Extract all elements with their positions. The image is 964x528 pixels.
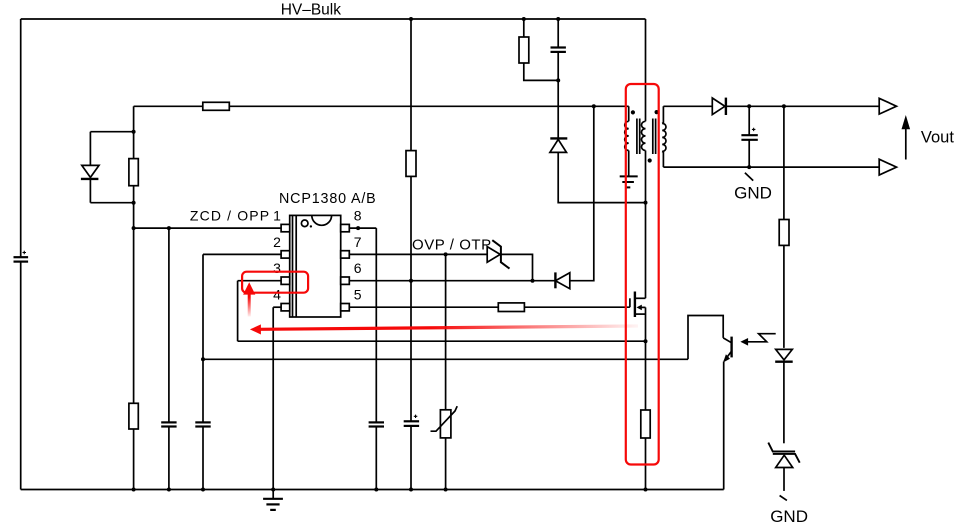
capacitor C-pin8 [369, 422, 384, 426]
op-amp U1 NCP1380 body [290, 215, 341, 317]
wire diode branch lower vertical [89, 179, 91, 203]
junction HV/snubber resistor [522, 17, 526, 21]
ground aux winding [620, 176, 638, 187]
wire pin8 row [349, 227, 376, 229]
svg-text:NCP1380 A/B: NCP1380 A/B [279, 191, 377, 207]
capacitor C-zcd [161, 422, 176, 426]
junction vcc/pin6 [409, 279, 413, 283]
wire resistor to bus [133, 429, 135, 490]
junction aux/vcc-diode [592, 104, 596, 108]
wire divider to led [783, 245, 785, 348]
wire startup node vertical [133, 106, 135, 158]
pin 2 box [281, 251, 290, 258]
junction out cap bottom [747, 165, 751, 169]
capacitor C-bulk [14, 251, 29, 262]
junction HV/startup resistor [409, 17, 413, 21]
junction source/CS [644, 339, 648, 343]
wire GND pin4 row [273, 306, 281, 308]
wire snubber resistor drop [523, 19, 525, 37]
junction bus C-vcc [409, 488, 413, 492]
ground flag GND right [780, 496, 787, 501]
zener D-ovp [487, 240, 509, 268]
transistor U-opto phototransistor [723, 337, 732, 363]
pin 4 box [281, 304, 290, 311]
diode D-opto-led [775, 349, 793, 361]
wire pin8 vertical [375, 228, 377, 422]
svg-text:7: 7 [354, 234, 362, 250]
svg-text:GND: GND [734, 183, 772, 202]
svg-text:HV–Bulk: HV–Bulk [281, 2, 342, 19]
junction bus NTC [444, 488, 448, 492]
diode D-zcd [81, 165, 99, 179]
junction bus pin4 gnd [271, 488, 275, 492]
diode D-out [712, 98, 726, 115]
junction out cap [747, 104, 751, 108]
junction HV/snubber cap [556, 17, 560, 21]
wire snubber cap to diode [557, 52, 559, 138]
wire pin6 row [349, 280, 555, 282]
wire pin8 cap to bus [375, 427, 377, 490]
wire led to tl431 [783, 362, 785, 443]
wire aux rail right segment [229, 105, 628, 107]
wire ZCD pin1 row [134, 227, 282, 229]
transformer T1 secondary winding [662, 106, 666, 167]
svg-text:1: 1 [273, 208, 281, 224]
junction zcd cap tap [167, 226, 171, 230]
wire CS pin3 row [238, 280, 282, 282]
wire secondary bottom rail [663, 166, 879, 168]
pin 3 box [281, 277, 290, 284]
junction bus C-fb [201, 488, 205, 492]
svg-text:GND: GND [770, 507, 808, 526]
svg-text:8: 8 [354, 208, 362, 224]
svg-text:Vout: Vout [921, 129, 954, 147]
wire FB horizontal to opto [203, 358, 688, 360]
junction drain/clamp [644, 201, 648, 205]
resistor R-bottom-left [129, 403, 138, 429]
wire left rail upper [20, 19, 22, 257]
junction pin8 stub [356, 226, 360, 230]
wire clamp diode to drain [558, 152, 645, 202]
junction pin7 thermistor tap [444, 252, 448, 256]
junction FB bus tap [201, 357, 205, 361]
ground symbol bottom [263, 490, 283, 510]
wire aux rail left segment [134, 105, 203, 107]
junction divider top [782, 104, 786, 108]
phase dot secondary [655, 110, 659, 114]
wire snubber cap drop [557, 19, 559, 47]
node red highlight box pin3 [242, 272, 308, 293]
transformer T1 primary winding [642, 19, 646, 151]
junction snubber RC [556, 78, 560, 82]
wire opto light arrow [740, 334, 775, 346]
wire zcd cap to bus [168, 427, 170, 490]
pin 5 box [341, 304, 350, 311]
node red arrow horizontal [250, 324, 638, 334]
phase dot aux [631, 110, 635, 114]
node red highlight box transformer [626, 84, 659, 465]
junction startup node top [132, 130, 136, 134]
wire bottom ground bus [21, 489, 724, 491]
pin 6 box [341, 277, 350, 284]
phase dot primary [648, 158, 652, 162]
resistor R-startup [406, 151, 416, 177]
ground flag GND output [745, 173, 753, 181]
transformer T1 core left [637, 119, 640, 155]
wire diode to aux riser [570, 106, 594, 280]
wire output rail after diode [726, 105, 879, 107]
transformer T1 core right [653, 119, 656, 155]
wire source vertical [645, 307, 647, 410]
pin 1 box [281, 224, 290, 231]
wire CS horizontal to mosfet source [238, 340, 646, 342]
transformer T1 aux winding [625, 106, 629, 176]
wire startup HV vertical [410, 19, 412, 151]
wire diode branch bottom [90, 202, 133, 204]
pin 8 box [341, 224, 350, 231]
capacitor C-out polarized [741, 106, 757, 167]
junction bus R [132, 488, 136, 492]
junction bus C-zcd [167, 488, 171, 492]
wire sense resistor to bus [645, 438, 647, 490]
resistor R-gate [498, 303, 524, 312]
junction zener/pin6 row [531, 279, 535, 283]
wire vcc cap to bus [410, 426, 412, 489]
svg-text:4: 4 [273, 287, 281, 303]
node output terminal bottom [879, 159, 896, 175]
wire pin5 DRV row [349, 306, 498, 308]
wire CS vertical [237, 281, 239, 342]
svg-text:3: 3 [273, 260, 281, 276]
wire HV-Bulk top bus [21, 18, 646, 20]
wire gate resistor to mosfet [524, 306, 630, 308]
wire zcd cap vertical [168, 228, 170, 422]
resistor R-zcd-bottom [129, 159, 138, 186]
junction zcd row left [132, 226, 136, 230]
thermistor NTC [431, 406, 458, 438]
capacitor C-fb [195, 422, 210, 426]
node red arrow vertical [243, 282, 255, 316]
diode D-clamp [550, 138, 567, 152]
wire FB pin2 row [203, 253, 281, 255]
svg-text:ZCD / OPP: ZCD / OPP [190, 208, 270, 224]
wire secondary top rail [663, 105, 712, 107]
wire startup resistor to vcc cap [410, 176, 412, 421]
resistor R-snubber [519, 37, 529, 63]
capacitor C-vcc polarized [404, 415, 419, 426]
wire tl431 to gnd [783, 468, 785, 491]
junction bus R-sense [644, 488, 648, 492]
wire drain vertical [645, 151, 647, 299]
svg-text:OVP / OTP: OVP / OTP [412, 236, 492, 253]
junction bus C-pin8 [374, 488, 378, 492]
junction startup node bottom [132, 201, 136, 205]
wire diode branch top [90, 131, 133, 133]
transistor U-tl431 shunt regulator [768, 443, 799, 468]
wire diode branch upper vertical [89, 132, 91, 166]
resistor R-divider [779, 220, 789, 246]
wire thermistor vertical [445, 254, 447, 409]
svg-text:6: 6 [354, 260, 362, 276]
wire FB vertical [202, 254, 204, 422]
resistor R-zcd-top [203, 102, 230, 110]
pin 7 box [341, 251, 350, 258]
wire pin7 row [349, 253, 487, 255]
capacitor C-snubber [551, 48, 566, 52]
wire opto emitter to bus [723, 362, 725, 490]
wire divider upper [783, 106, 785, 219]
svg-text:5: 5 [354, 287, 362, 303]
node output terminal top [879, 98, 896, 114]
wire snubber resistor to joint [524, 63, 558, 80]
svg-text:2: 2 [273, 234, 281, 250]
node Vout arrow [902, 115, 911, 160]
wire fb cap to bus [202, 427, 204, 490]
wire left rail lower [20, 262, 22, 490]
wire thermistor to bus [445, 438, 447, 490]
transistor Q1 mosfet [630, 292, 646, 318]
wire opto collector feed [688, 316, 723, 360]
wire zener to corner [501, 254, 533, 280]
wire startup to zcd row [133, 186, 135, 404]
resistor R-sense [641, 410, 650, 438]
diode D-vcc-aux [555, 272, 569, 288]
wire GND pin4 vertical [272, 307, 274, 489]
